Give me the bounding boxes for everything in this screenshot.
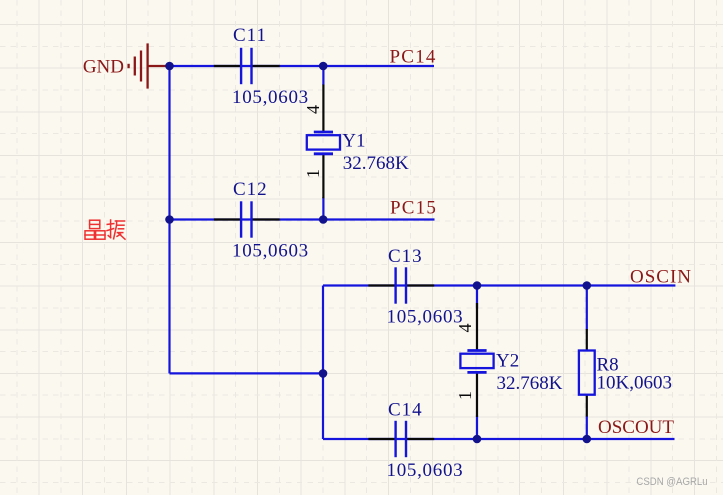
svg-text:1: 1 (455, 391, 475, 400)
wire net GND top horizontal (166, 65, 434, 67)
svg-text:OSCOUT: OSCOUT (598, 417, 674, 438)
wire R8 top segment (586, 286, 588, 330)
wire R8 bottom segment (586, 416, 588, 439)
svg-text:32.768K: 32.768K (497, 373, 563, 394)
svg-text:105,0603: 105,0603 (387, 460, 464, 481)
svg-text:10K,0603: 10K,0603 (597, 373, 672, 394)
svg-text:OSCIN: OSCIN (630, 266, 692, 287)
crystal Y2 (460, 303, 493, 417)
wire Y1 bottom segment (322, 197, 324, 220)
wire net GND C12 row horizontal (170, 218, 435, 220)
svg-text:105,0603: 105,0603 (387, 307, 464, 328)
resistor R8 (579, 329, 595, 417)
wire net GND lower vertical (322, 286, 324, 440)
svg-text:GND: GND (83, 57, 124, 78)
crystal Y1 (307, 85, 340, 199)
junction GND/C11 (165, 62, 174, 71)
junction OSCIN/R8 (583, 281, 592, 290)
junction trunk/lower branch (319, 369, 328, 378)
capacitor C13 (368, 267, 434, 303)
svg-text:C11: C11 (233, 25, 267, 46)
wire net GND lower horizontal (170, 372, 324, 374)
svg-text:Y2: Y2 (496, 350, 519, 371)
wire net OSCIN horizontal (323, 284, 675, 286)
capacitor C12 (214, 201, 280, 237)
junction OSCOUT/R8 (583, 435, 592, 444)
wire net GND vertical trunk (168, 66, 170, 373)
wire Y1 top segment (322, 66, 324, 85)
svg-text:Y1: Y1 (342, 130, 365, 151)
svg-text:C14: C14 (388, 400, 423, 421)
ground (83, 43, 167, 88)
svg-text:4: 4 (303, 105, 323, 114)
svg-text:105,0603: 105,0603 (232, 87, 309, 108)
junction C12/Y1/PC15 (319, 215, 328, 224)
svg-text:32.768K: 32.768K (343, 153, 409, 174)
junction C11/Y1/PC14 (319, 62, 328, 71)
junction OSCIN/Y2 (473, 281, 482, 290)
svg-text:1: 1 (303, 169, 323, 178)
capacitor C14 (368, 421, 434, 457)
svg-text:105,0603: 105,0603 (232, 241, 309, 262)
svg-text:C12: C12 (233, 179, 268, 200)
junction trunk/C12 (165, 215, 174, 224)
wire Y2 bottom segment (476, 416, 478, 440)
annotation 晶振 (crystal oscillator) (85, 220, 125, 239)
svg-text:PC15: PC15 (390, 198, 437, 219)
svg-text:PC14: PC14 (390, 47, 437, 68)
svg-text:4: 4 (455, 324, 475, 333)
svg-text:CSDN @AGRLu: CSDN @AGRLu (636, 476, 707, 488)
wire Y2 top segment (476, 286, 478, 309)
svg-text:C13: C13 (388, 246, 423, 267)
junction OSCOUT/Y2 (473, 435, 482, 444)
capacitor C11 (214, 48, 280, 84)
wire net OSCOUT horizontal (323, 438, 675, 440)
